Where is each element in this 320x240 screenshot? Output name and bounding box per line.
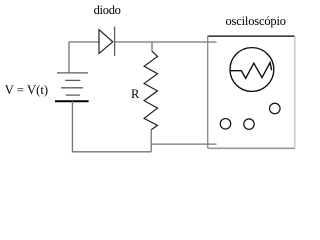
oscilloscope knob (lower left) bbox=[220, 119, 231, 130]
diode D1 cathode bar bbox=[114, 27, 116, 57]
resistor R bottom stub bbox=[150, 130, 152, 152]
oscilloscope U1 case top edge bbox=[208, 35, 295, 37]
wire: bottom horizontal from corner to resistor bottom node bbox=[72, 151, 151, 153]
oscilloscope screen waveform trace bbox=[230, 63, 271, 79]
svg-text:R: R bbox=[131, 87, 140, 101]
battery B1 plate 1 (top long) bbox=[57, 72, 88, 74]
battery B1 plate 4 (short) bbox=[66, 94, 80, 96]
battery B1 plate 2 (short) bbox=[65, 79, 80, 81]
wire: battery top terminal up to top-left corner bbox=[68, 42, 70, 73]
wire: resistor bottom node right into oscilloscope bbox=[151, 143, 216, 145]
diode D1 triangle bbox=[99, 30, 113, 54]
wire: top-left corner to diode anode bbox=[68, 41, 99, 43]
oscilloscope knob (upper right) bbox=[270, 103, 281, 114]
resistor R top stub bbox=[151, 42, 153, 51]
oscilloscope screen circle bbox=[230, 48, 274, 92]
battery B1 plate 3 (medium) bbox=[61, 87, 83, 89]
resistor R zigzag bbox=[144, 51, 157, 130]
oscilloscope U1 case left edge bbox=[207, 36, 209, 149]
oscilloscope U1 case right edge bbox=[294, 36, 296, 148]
battery B1 plate 5 (bottom long thick) bbox=[55, 100, 89, 102]
oscilloscope U1 case bottom edge bbox=[208, 147, 295, 149]
svg-text:osciloscópio: osciloscópio bbox=[226, 14, 287, 28]
wire: battery bottom terminal down to bottom-left corner bbox=[71, 101, 73, 152]
oscilloscope knob (lower middle) bbox=[244, 119, 254, 129]
svg-text:diodo: diodo bbox=[94, 3, 121, 17]
svg-text:V = V(t): V = V(t) bbox=[5, 83, 48, 97]
wire: diode cathode right to oscilloscope bbox=[115, 41, 217, 43]
